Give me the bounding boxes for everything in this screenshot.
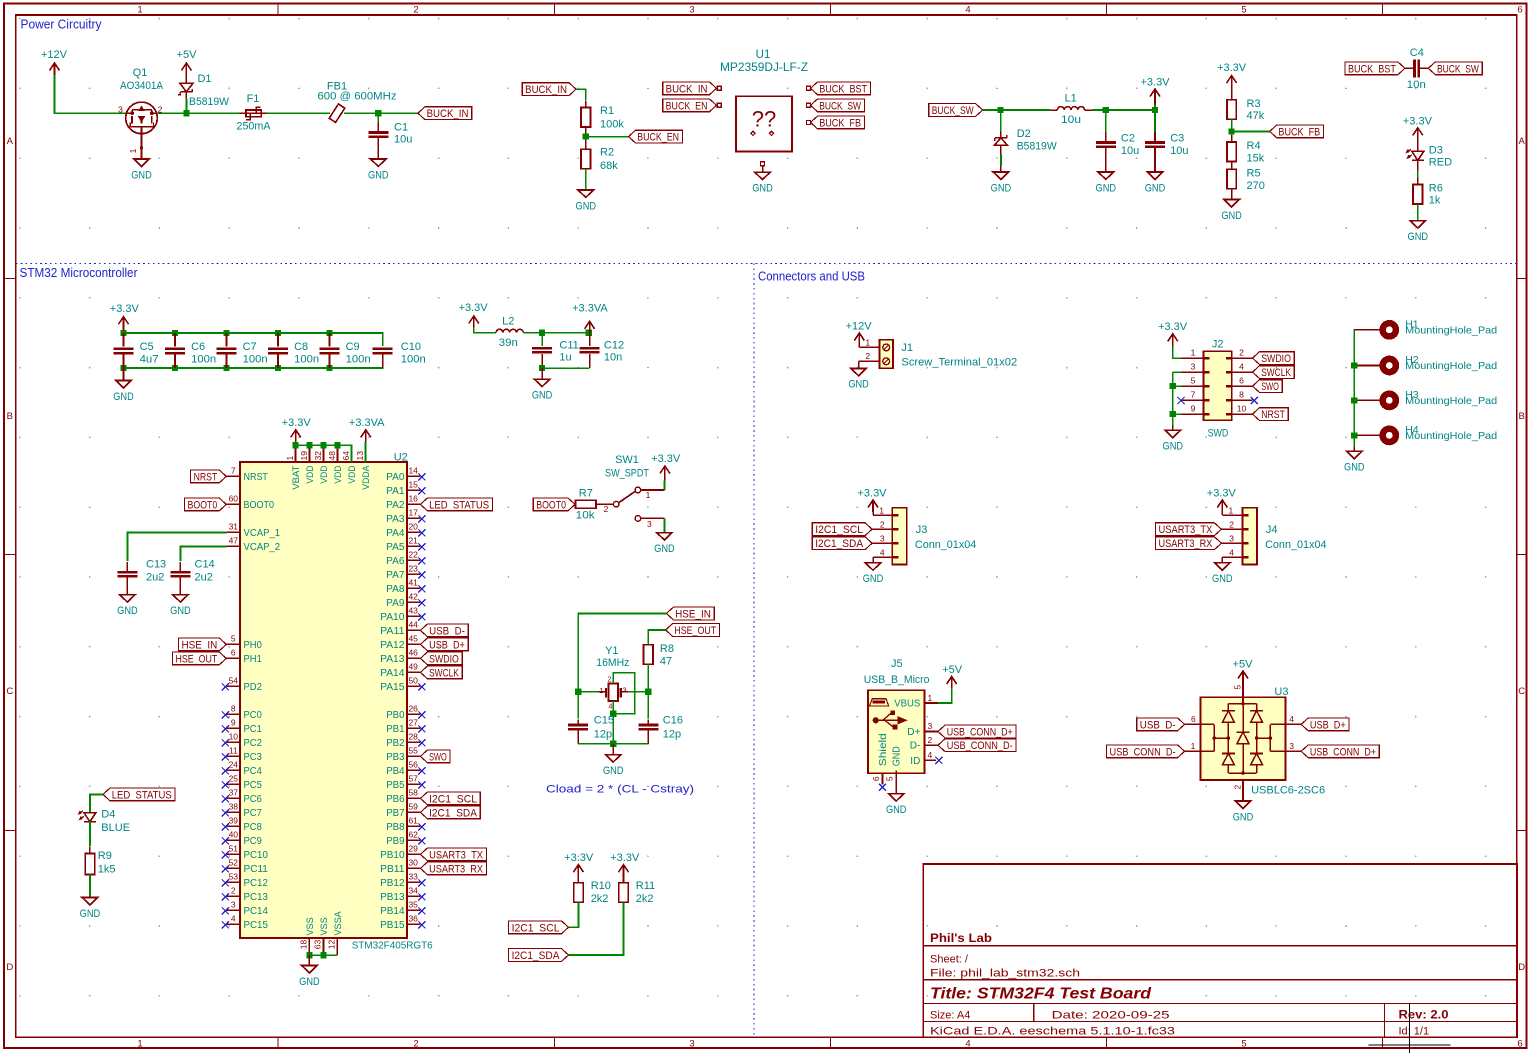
junction at C1 bbox=[375, 110, 381, 116]
svg-text:61: 61 bbox=[408, 815, 418, 825]
svg-text:5: 5 bbox=[1241, 1039, 1246, 1050]
global label BUCK_BST at U1 bbox=[811, 82, 871, 95]
power flag +3.3V at J2 bbox=[1172, 334, 1174, 347]
svg-text:+5V: +5V bbox=[1233, 658, 1254, 670]
J5 pin 4 ID bbox=[924, 759, 936, 761]
svg-text:USBLC6-2SC6: USBLC6-2SC6 bbox=[1251, 784, 1325, 796]
svg-text:BUCK_FB: BUCK_FB bbox=[819, 117, 861, 129]
svg-text:R9: R9 bbox=[98, 850, 112, 862]
svg-text:2: 2 bbox=[1239, 348, 1244, 358]
svg-text:GND: GND bbox=[131, 169, 152, 181]
ground at J1 bbox=[851, 368, 866, 375]
svg-text:28: 28 bbox=[408, 731, 418, 741]
svg-text:2: 2 bbox=[880, 519, 885, 529]
svg-text:15k: 15k bbox=[1247, 153, 1265, 165]
svg-text:1: 1 bbox=[879, 505, 884, 515]
U2 pin 52 PC11 bbox=[226, 867, 240, 869]
global label I2C1_SCL at PB6 bbox=[420, 792, 480, 805]
U2 pin 57 PB5 bbox=[407, 783, 421, 785]
no-connect J5 pin6 bbox=[879, 784, 886, 791]
svg-text:??: ?? bbox=[752, 107, 776, 132]
svg-text:I2C1_SDA: I2C1_SDA bbox=[512, 950, 560, 962]
global label SWDIO at J2 bbox=[1253, 352, 1295, 365]
svg-text:8: 8 bbox=[231, 703, 236, 713]
J5 pin 6 Shield bbox=[882, 773, 884, 784]
svg-text:STM32 Microcontroller: STM32 Microcontroller bbox=[20, 266, 138, 280]
svg-text:4: 4 bbox=[928, 750, 933, 760]
junction bypass bottom 3 bbox=[223, 365, 229, 371]
svg-text:R6: R6 bbox=[1429, 182, 1443, 194]
svg-text:USB_CONN_D+: USB_CONN_D+ bbox=[1310, 746, 1376, 758]
svg-text:I2C1_SCL: I2C1_SCL bbox=[512, 922, 560, 934]
svg-text:14: 14 bbox=[408, 465, 418, 475]
U2 pin 46 PA13 bbox=[407, 657, 421, 659]
J2 pin 8 bbox=[1232, 399, 1253, 401]
svg-text:PA4: PA4 bbox=[386, 528, 405, 539]
svg-text:PB0: PB0 bbox=[386, 710, 405, 721]
J2 pin 10 bbox=[1232, 413, 1253, 415]
svg-text:21: 21 bbox=[408, 535, 418, 545]
J2 pin 7 bbox=[1181, 399, 1203, 401]
ferrite bead FB1 600@600MHz bbox=[329, 104, 345, 122]
diode array U3 USBLC6-2SC6 bbox=[1200, 697, 1285, 780]
svg-text:BOOT0: BOOT0 bbox=[188, 499, 218, 511]
wire R2 to ground bbox=[585, 169, 587, 190]
svg-text:J3: J3 bbox=[916, 524, 928, 536]
svg-text:27: 27 bbox=[408, 717, 418, 727]
wire L2 to +3.3VA bbox=[523, 332, 589, 334]
U2 pin 15 PA1 bbox=[407, 489, 421, 491]
svg-text:R8: R8 bbox=[660, 643, 674, 655]
junction at D2 bbox=[998, 107, 1004, 113]
svg-text:PA14: PA14 bbox=[380, 668, 405, 679]
svg-text:100n: 100n bbox=[191, 354, 216, 366]
junction bypass top 5 bbox=[326, 330, 332, 336]
ground at R6 bbox=[1410, 221, 1425, 228]
U2 pin 39 PC8 bbox=[226, 825, 240, 827]
svg-text:PC13: PC13 bbox=[244, 892, 269, 903]
svg-text:PB10: PB10 bbox=[380, 850, 405, 861]
capacitor C13 2u2 bbox=[117, 571, 137, 574]
U3 pin 5 bbox=[1242, 683, 1244, 703]
global label BUCK_BST at C4 bbox=[1345, 62, 1405, 75]
wire mounting hole ground rail bbox=[1354, 330, 1365, 447]
svg-text:BOOT0: BOOT0 bbox=[536, 499, 566, 511]
svg-text:1k5: 1k5 bbox=[98, 864, 116, 876]
svg-text:PB9: PB9 bbox=[386, 836, 405, 847]
svg-text:Connectors and USB: Connectors and USB bbox=[758, 270, 865, 284]
svg-text:1: 1 bbox=[128, 148, 138, 153]
svg-text:100n: 100n bbox=[346, 354, 371, 366]
junction bypass bottom 1 bbox=[120, 365, 126, 371]
svg-text:2: 2 bbox=[604, 504, 609, 514]
power flag +3.3V at SW1 bbox=[664, 466, 666, 481]
svg-text:100n: 100n bbox=[243, 354, 268, 366]
svg-text:LED_STATUS: LED_STATUS bbox=[429, 499, 489, 511]
svg-text:PA9: PA9 bbox=[386, 598, 405, 609]
capacitor C1 10u bbox=[377, 113, 379, 125]
power flag +3.3V at bypass caps bbox=[123, 317, 125, 330]
ground at SW1 bbox=[657, 533, 672, 540]
resistor R11 2k2 bbox=[623, 878, 625, 883]
junction at C2 bbox=[1103, 107, 1109, 113]
svg-text:62: 62 bbox=[408, 829, 418, 839]
global label SWCLK at J2 bbox=[1253, 366, 1295, 379]
svg-text:U3: U3 bbox=[1274, 686, 1288, 698]
U2 pin 44 PA11 bbox=[407, 629, 421, 631]
junction at D1 bbox=[183, 110, 189, 116]
U2 pin 54 PD2 bbox=[226, 685, 240, 687]
svg-text:LED_STATUS: LED_STATUS bbox=[112, 789, 172, 801]
svg-text:BUCK_IN: BUCK_IN bbox=[427, 108, 469, 120]
wire J2 ground rail bbox=[1172, 372, 1174, 425]
svg-text:PB4: PB4 bbox=[386, 766, 405, 777]
svg-text:GND: GND bbox=[576, 200, 597, 212]
svg-text:GND: GND bbox=[752, 183, 773, 195]
resistor R7 10k bbox=[575, 503, 577, 505]
junction VDD rail bbox=[320, 442, 326, 448]
ground at U2 bbox=[308, 955, 310, 965]
title block frame bbox=[923, 864, 1517, 1037]
svg-text:39: 39 bbox=[229, 815, 239, 825]
svg-text:36: 36 bbox=[408, 913, 418, 923]
svg-text:GND: GND bbox=[1096, 182, 1117, 194]
svg-text:Power Circuitry: Power Circuitry bbox=[21, 18, 103, 32]
power flag +3.3V at R11 bbox=[623, 865, 625, 878]
U3 internal bottom rail bbox=[1228, 772, 1256, 774]
connector J2 SWD bbox=[1203, 351, 1231, 420]
svg-text:PA3: PA3 bbox=[386, 514, 405, 525]
U3 pin 6 bbox=[1185, 723, 1201, 725]
svg-text:Title: STM32F4 Test Board: Title: STM32F4 Test Board bbox=[930, 986, 1152, 1003]
svg-text:USB_D+: USB_D+ bbox=[1310, 719, 1346, 731]
svg-text:USB_D-: USB_D- bbox=[429, 625, 465, 637]
switch SW1 SW_SPDT bbox=[613, 501, 619, 507]
U2 pin 56 PB4 bbox=[407, 769, 421, 771]
svg-text:1: 1 bbox=[285, 456, 295, 461]
global label LED_STATUS at D4 bbox=[103, 788, 175, 801]
svg-text:PC3: PC3 bbox=[244, 752, 263, 763]
microcontroller U2 STM32F405RGT6 bbox=[240, 462, 407, 938]
svg-text:GND: GND bbox=[80, 908, 101, 920]
ground at C3 bbox=[1147, 172, 1162, 179]
svg-text:SWDIO: SWDIO bbox=[1261, 353, 1291, 365]
svg-text:+3.3V: +3.3V bbox=[110, 303, 140, 315]
global label BUCK_IN at divider bbox=[522, 83, 576, 96]
svg-text:MountingHole_Pad: MountingHole_Pad bbox=[1405, 430, 1497, 442]
U2 pin 1 VBAT bbox=[295, 445, 297, 462]
global label USART3_TX at PB10 bbox=[420, 848, 486, 861]
wire to BUCK_EN label bbox=[586, 136, 629, 138]
ground at Q1 bbox=[134, 159, 149, 166]
svg-text:VDD: VDD bbox=[319, 465, 330, 483]
U2 pin 19 VDD bbox=[309, 445, 311, 462]
capacitor C16 12p bbox=[647, 692, 649, 719]
svg-text:100k: 100k bbox=[600, 118, 624, 130]
ground at U3 bbox=[1235, 801, 1250, 808]
svg-text:38: 38 bbox=[229, 801, 239, 811]
svg-text:PB6: PB6 bbox=[386, 794, 405, 805]
svg-text:PB2: PB2 bbox=[386, 738, 405, 749]
svg-text:L2: L2 bbox=[502, 315, 514, 327]
global label SWO at PB3 bbox=[420, 750, 450, 763]
global label I2C1_SCL at R10 bbox=[509, 921, 569, 934]
junction VDD rail bbox=[334, 442, 340, 448]
power flag +5V at D1 bbox=[185, 63, 187, 75]
U2 pin 32 VDD bbox=[323, 445, 325, 462]
ground at D2 bbox=[993, 172, 1008, 179]
global label NRST at J2 bbox=[1253, 408, 1289, 421]
svg-text:270: 270 bbox=[1247, 180, 1265, 192]
svg-text:PA1: PA1 bbox=[386, 486, 405, 497]
svg-text:GND: GND bbox=[1221, 210, 1242, 222]
U2 pin 2 PC13 bbox=[226, 895, 240, 897]
wire Y1 ground node down bbox=[612, 714, 614, 744]
svg-text:VDD: VDD bbox=[305, 465, 316, 483]
svg-text:VDD: VDD bbox=[347, 465, 358, 483]
ground at R5 bbox=[1224, 200, 1239, 207]
svg-text:100n: 100n bbox=[294, 354, 319, 366]
svg-text:D1: D1 bbox=[197, 73, 211, 85]
svg-text:I2C1_SCL: I2C1_SCL bbox=[429, 793, 477, 805]
svg-text:BUCK_FB: BUCK_FB bbox=[1278, 126, 1320, 138]
resistor R5 270 bbox=[1231, 162, 1233, 169]
diode D2 B5819W bbox=[1000, 110, 1002, 131]
wire VDDA bbox=[365, 441, 367, 462]
power flag +3.3V at U2 bbox=[295, 430, 297, 442]
svg-text:PA10: PA10 bbox=[380, 612, 405, 623]
junction bypass top 4 bbox=[275, 330, 281, 336]
svg-text:10u: 10u bbox=[1061, 114, 1081, 126]
svg-text:PB1: PB1 bbox=[386, 724, 405, 735]
svg-text:3: 3 bbox=[928, 721, 933, 731]
J2 pin 6 bbox=[1232, 385, 1253, 387]
svg-text:SWO: SWO bbox=[1261, 381, 1279, 393]
svg-text:1: 1 bbox=[928, 693, 933, 703]
svg-text:VSSA: VSSA bbox=[333, 911, 344, 936]
power flag +3.3V at J3 bbox=[872, 500, 874, 512]
svg-text:Phil's Lab: Phil's Lab bbox=[930, 931, 992, 945]
svg-text:C: C bbox=[6, 686, 13, 697]
capacitor C11 1u bbox=[541, 333, 543, 346]
svg-text:4u7: 4u7 bbox=[140, 354, 159, 366]
J3 pin2 bbox=[872, 528, 892, 530]
svg-text:2: 2 bbox=[1229, 519, 1234, 529]
svg-text:12p: 12p bbox=[663, 729, 681, 741]
svg-text:7: 7 bbox=[231, 465, 236, 475]
svg-text:SWCLK: SWCLK bbox=[1261, 367, 1291, 379]
svg-text:GND: GND bbox=[532, 390, 553, 402]
svg-text:PC15: PC15 bbox=[244, 920, 269, 931]
svg-text:47k: 47k bbox=[1247, 110, 1265, 122]
svg-text:R2: R2 bbox=[600, 147, 614, 159]
U2 pin 34 PB13 bbox=[407, 895, 421, 897]
capacitor C6 100n bbox=[174, 333, 176, 347]
svg-text:13: 13 bbox=[355, 451, 365, 461]
svg-text:11: 11 bbox=[229, 745, 238, 755]
svg-text:GND: GND bbox=[603, 765, 624, 777]
svg-text:3: 3 bbox=[1289, 741, 1294, 751]
junction bypass top 2 bbox=[172, 330, 178, 336]
svg-text:42: 42 bbox=[408, 591, 418, 601]
junction bypass bottom 5 bbox=[326, 365, 332, 371]
junction J2 pin9 bbox=[1170, 411, 1176, 417]
svg-text:PB11: PB11 bbox=[380, 864, 405, 875]
U3 diode top-left bbox=[1227, 704, 1229, 711]
svg-text:GND: GND bbox=[117, 605, 138, 617]
svg-text:PH1: PH1 bbox=[244, 654, 263, 665]
svg-text:C6: C6 bbox=[191, 341, 205, 353]
svg-text:PC5: PC5 bbox=[244, 780, 263, 791]
svg-text:+3.3V: +3.3V bbox=[1158, 321, 1188, 333]
svg-text:BUCK_BST: BUCK_BST bbox=[819, 83, 867, 95]
svg-text:24: 24 bbox=[229, 759, 239, 769]
power flag +3.3V at D3 bbox=[1417, 128, 1419, 141]
wire VDD rail bbox=[295, 441, 297, 445]
svg-text:PC10: PC10 bbox=[244, 850, 269, 861]
svg-text:C: C bbox=[1518, 686, 1525, 697]
svg-text:PA11: PA11 bbox=[380, 626, 405, 637]
global label USB_D- at U3 bbox=[1137, 718, 1185, 731]
svg-text:BUCK_EN: BUCK_EN bbox=[637, 132, 679, 144]
U3 diode bottom-right bbox=[1256, 722, 1258, 753]
wire VCAP_2 to C14 bbox=[180, 546, 226, 561]
U2 pin 41 PA8 bbox=[407, 587, 421, 589]
U2 pin 33 PB12 bbox=[407, 881, 421, 883]
ground at C13 bbox=[120, 595, 135, 602]
ground at C5 bbox=[123, 368, 125, 381]
svg-text:B: B bbox=[7, 411, 13, 422]
svg-text:USB_D+: USB_D+ bbox=[429, 639, 465, 651]
global label BUCK_EN bbox=[629, 130, 683, 143]
resistor R4 15k bbox=[1231, 135, 1233, 142]
power flag +3.3V at J4 bbox=[1221, 500, 1223, 512]
power flag +3.3V at L2 bbox=[473, 316, 475, 328]
capacitor C14 2u2 bbox=[170, 571, 190, 574]
U2 pin 61 PB8 bbox=[407, 825, 421, 827]
svg-text:HSE_OUT: HSE_OUT bbox=[175, 653, 217, 665]
svg-text:BUCK_EN: BUCK_EN bbox=[666, 100, 708, 112]
wire Y1 pin2 loop bbox=[613, 673, 634, 714]
svg-text:MountingHole_Pad: MountingHole_Pad bbox=[1405, 325, 1497, 337]
U2 pin 12 VSSA bbox=[336, 938, 338, 955]
resistor R1 100k bbox=[585, 101, 587, 108]
svg-text:+12V: +12V bbox=[41, 49, 68, 61]
svg-text:+3.3V: +3.3V bbox=[610, 852, 640, 864]
U2 pin 9 PC1 bbox=[226, 727, 240, 729]
svg-text:+3.3V: +3.3V bbox=[1217, 62, 1247, 74]
svg-text:1: 1 bbox=[599, 686, 603, 695]
wire +12V to Q1 source bbox=[55, 75, 126, 113]
svg-text:20: 20 bbox=[408, 521, 418, 531]
svg-text:PB14: PB14 bbox=[380, 906, 405, 917]
J4 pin2 bbox=[1221, 528, 1242, 530]
svg-text:RED: RED bbox=[1429, 156, 1452, 168]
svg-text:PB12: PB12 bbox=[380, 878, 405, 889]
svg-text:5: 5 bbox=[1191, 376, 1196, 386]
wire +3.3V to J4 pin1 bbox=[1221, 512, 1223, 515]
J4 pin4 bbox=[1222, 556, 1242, 558]
svg-text:47: 47 bbox=[229, 535, 239, 545]
svg-text:Date: 2020-09-25: Date: 2020-09-25 bbox=[1052, 1009, 1170, 1021]
svg-text:C16: C16 bbox=[663, 715, 683, 727]
U2 pin 25 PC5 bbox=[226, 783, 240, 785]
svg-text:PA8: PA8 bbox=[386, 584, 405, 595]
crystal Y1 16MHz bbox=[609, 684, 619, 702]
svg-text:PB8: PB8 bbox=[386, 822, 405, 833]
svg-text:10: 10 bbox=[1237, 404, 1247, 414]
svg-text:GND: GND bbox=[368, 169, 389, 181]
svg-text:B5819W: B5819W bbox=[1017, 141, 1058, 153]
svg-text:D2: D2 bbox=[1017, 128, 1031, 140]
power flag +5V at U3 bbox=[1242, 671, 1244, 683]
svg-text:J1: J1 bbox=[901, 342, 913, 354]
ground at J4 bbox=[1215, 563, 1230, 570]
svg-text:17: 17 bbox=[408, 507, 418, 517]
svg-text:PB3: PB3 bbox=[386, 752, 405, 763]
U2 pin 24 PC4 bbox=[226, 769, 240, 771]
svg-text:R10: R10 bbox=[591, 880, 611, 892]
svg-text:+3.3VA: +3.3VA bbox=[349, 417, 385, 429]
wire SW1 pin1 to +3.3V bbox=[663, 481, 665, 490]
svg-text:PC12: PC12 bbox=[244, 878, 269, 889]
svg-text:C3: C3 bbox=[1170, 133, 1184, 145]
svg-text:2: 2 bbox=[865, 351, 870, 361]
svg-text:A: A bbox=[7, 136, 14, 147]
wire BUCK_IN net Q1 to label bbox=[157, 112, 239, 114]
global label USB_D+ at U3 bbox=[1301, 718, 1349, 731]
svg-text:58: 58 bbox=[408, 787, 418, 797]
svg-text:3: 3 bbox=[1191, 362, 1196, 372]
U2 pin 14 PA0 bbox=[407, 475, 421, 477]
global label I2C1_SDA at J3 bbox=[812, 537, 872, 550]
svg-text:SW_SPDT: SW_SPDT bbox=[605, 467, 649, 479]
wire Y1 pin4 bbox=[612, 701, 614, 714]
wire +3.3V to J3 pin1 bbox=[872, 512, 874, 515]
svg-text:USB_CONN_D-: USB_CONN_D- bbox=[1110, 746, 1176, 758]
global label BUCK_SW at output filter bbox=[929, 104, 983, 117]
svg-text:41: 41 bbox=[408, 577, 418, 587]
svg-text:C13: C13 bbox=[146, 558, 166, 570]
svg-text:HSE_OUT: HSE_OUT bbox=[674, 625, 716, 637]
svg-text:9: 9 bbox=[1191, 404, 1196, 414]
global label USB_CONN_D- at U3 bbox=[1107, 745, 1185, 758]
capacitor C9 100n bbox=[329, 333, 331, 347]
inductor L2 39n bbox=[496, 329, 523, 332]
U2 pin 45 PA12 bbox=[407, 643, 421, 645]
resistor R3 47k bbox=[1231, 95, 1233, 101]
U3 left node bbox=[1214, 737, 1228, 739]
U3 right node bbox=[1257, 737, 1271, 739]
wire C12 to C11 ground node bbox=[542, 367, 590, 369]
svg-text:SWD: SWD bbox=[1208, 427, 1229, 439]
global label HSE_IN at Y1 bbox=[666, 607, 714, 620]
U2 pin 53 PC12 bbox=[226, 881, 240, 883]
svg-text:GND: GND bbox=[1145, 182, 1166, 194]
svg-text:4: 4 bbox=[231, 913, 236, 923]
fuse F1 250mA bbox=[246, 110, 261, 117]
svg-text:+3.3V: +3.3V bbox=[1207, 487, 1237, 499]
svg-text:GND: GND bbox=[170, 605, 191, 617]
svg-text:STM32F405RGT6: STM32F405RGT6 bbox=[352, 939, 433, 951]
U3 internal top rail bbox=[1228, 703, 1256, 705]
U2 pin 29 PB10 bbox=[407, 853, 421, 855]
svg-text:Y1: Y1 bbox=[605, 645, 618, 657]
U2 pin 11 PC3 bbox=[226, 755, 240, 757]
junction at +3.3VA / C12 bbox=[586, 330, 592, 336]
svg-text:4: 4 bbox=[609, 704, 613, 711]
ground at R2 bbox=[578, 190, 593, 197]
